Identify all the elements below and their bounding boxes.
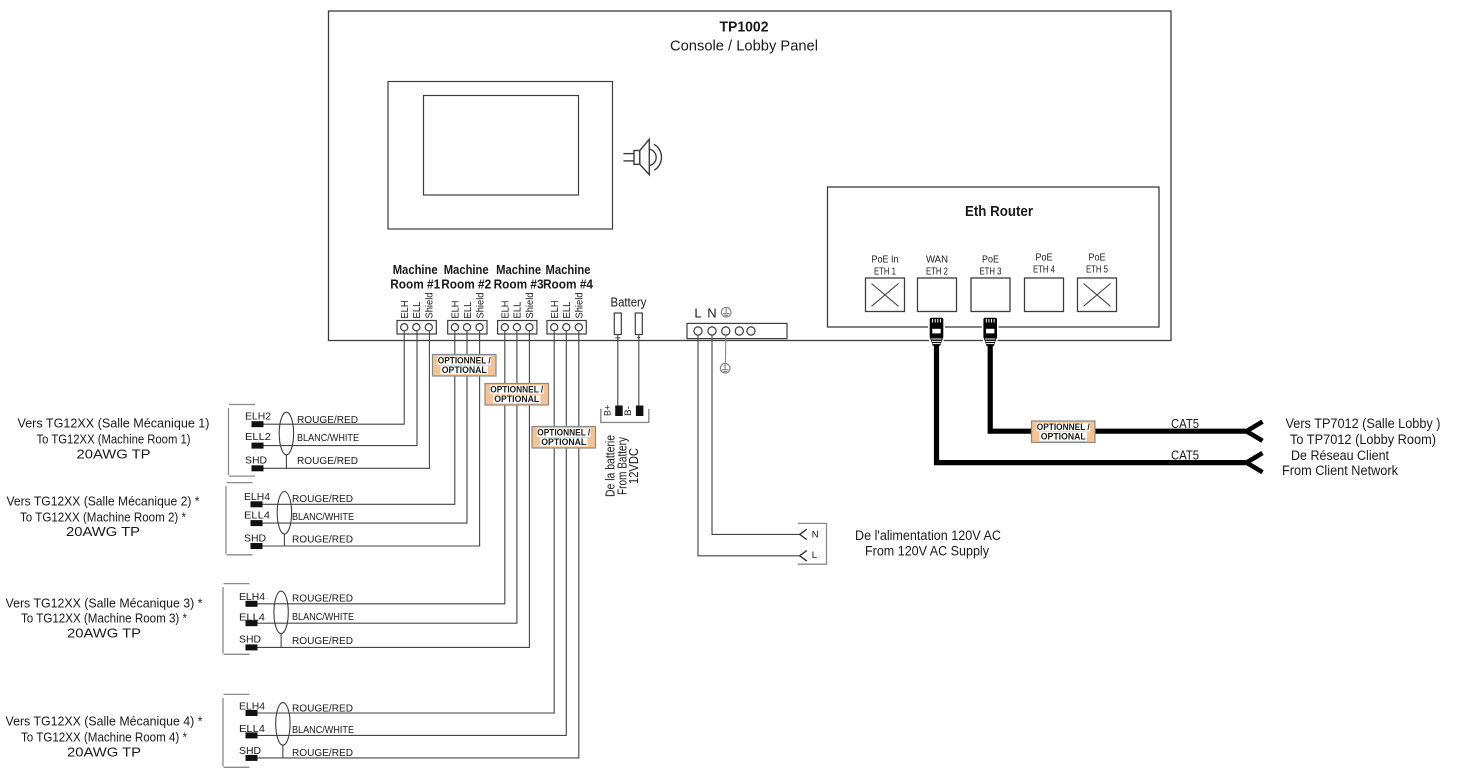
svg-text:OPTIONNEL /: OPTIONNEL / — [490, 385, 543, 395]
svg-text:Room #2: Room #2 — [441, 277, 491, 292]
svg-text:BLANC/WHITE: BLANC/WHITE — [292, 725, 354, 736]
svg-text:ETH 4: ETH 4 — [1033, 265, 1055, 276]
svg-text:OPTIONAL: OPTIONAL — [1041, 432, 1086, 442]
svg-text:ELL: ELL — [412, 301, 423, 318]
svg-text:BLANC/WHITE: BLANC/WHITE — [292, 612, 354, 623]
svg-text:ROUGE/RED: ROUGE/RED — [292, 703, 353, 714]
svg-text:ETH 3: ETH 3 — [980, 267, 1002, 278]
svg-text:ETH 2: ETH 2 — [926, 267, 948, 278]
svg-text:Machine: Machine — [393, 262, 438, 277]
svg-text:ELL: ELL — [562, 301, 573, 318]
svg-text:From 120V AC Supply: From 120V AC Supply — [865, 543, 989, 558]
svg-text:PoE: PoE — [982, 255, 999, 266]
svg-text:BLANC/WHITE: BLANC/WHITE — [292, 512, 354, 523]
svg-text:N: N — [812, 530, 819, 541]
svg-text:De Réseau Client: De Réseau Client — [1291, 448, 1389, 463]
svg-text:Vers TG12XX (Salle Mécanique 1: Vers TG12XX (Salle Mécanique 1) — [18, 415, 210, 430]
svg-text:L: L — [812, 550, 817, 561]
svg-text:ELH: ELH — [400, 301, 411, 319]
svg-text:ELL2: ELL2 — [245, 431, 271, 443]
svg-text:ELL: ELL — [463, 301, 474, 318]
svg-text:PoE In: PoE In — [872, 255, 899, 266]
svg-text:Room #4: Room #4 — [543, 277, 594, 292]
svg-text:Machine: Machine — [444, 262, 489, 277]
svg-text:CAT5: CAT5 — [1171, 416, 1199, 431]
svg-text:ROUGE/RED: ROUGE/RED — [292, 636, 353, 647]
svg-text:ETH 5: ETH 5 — [1086, 265, 1108, 276]
svg-text:Vers TG12XX (Salle Mécanique 4: Vers TG12XX (Salle Mécanique 4) * — [6, 713, 203, 728]
svg-text:OPTIONAL: OPTIONAL — [494, 394, 539, 404]
svg-text:ROUGE/RED: ROUGE/RED — [292, 494, 353, 505]
svg-text:PoE: PoE — [1089, 253, 1106, 264]
svg-text:Eth Router: Eth Router — [965, 203, 1033, 220]
svg-text:SHD: SHD — [245, 455, 267, 467]
svg-text:Console / Lobby Panel: Console / Lobby Panel — [670, 38, 818, 55]
svg-text:Machine: Machine — [546, 262, 591, 277]
svg-text:To TG12XX (Machine Room 1): To TG12XX (Machine Room 1) — [37, 431, 191, 446]
svg-text:Room #3: Room #3 — [494, 277, 544, 292]
svg-text:CAT5: CAT5 — [1171, 448, 1199, 463]
svg-text:Shield: Shield — [475, 293, 486, 319]
svg-text:Vers TG12XX (Salle Mécanique 2: Vers TG12XX (Salle Mécanique 2) * — [7, 493, 200, 508]
svg-text:Machine: Machine — [496, 262, 541, 277]
svg-text:12VDC: 12VDC — [627, 448, 641, 484]
svg-text:ELH4: ELH4 — [244, 491, 270, 503]
svg-text:Battery: Battery — [611, 296, 648, 310]
svg-text:ELH: ELH — [550, 301, 561, 319]
svg-text:OPTIONAL: OPTIONAL — [442, 365, 487, 375]
svg-text:SHD: SHD — [244, 532, 266, 544]
svg-text:Vers TG12XX (Salle Mécanique 3: Vers TG12XX (Salle Mécanique 3) * — [6, 595, 203, 610]
svg-text:ELH2: ELH2 — [245, 411, 271, 423]
svg-text:20AWG TP: 20AWG TP — [66, 524, 140, 539]
svg-text:ROUGE/RED: ROUGE/RED — [297, 456, 358, 467]
svg-text:Shield: Shield — [425, 293, 436, 319]
svg-text:ELH: ELH — [451, 301, 462, 319]
svg-text:B-: B- — [623, 406, 633, 416]
svg-text:20AWG TP: 20AWG TP — [77, 447, 151, 462]
svg-text:N: N — [707, 306, 716, 321]
svg-text:TP1002: TP1002 — [720, 19, 769, 36]
svg-text:20AWG TP: 20AWG TP — [67, 625, 141, 640]
svg-text:ROUGE/RED: ROUGE/RED — [292, 594, 353, 605]
svg-text:To TP7012 (Lobby Room): To TP7012 (Lobby Room) — [1290, 432, 1436, 447]
svg-text:OPTIONNEL /: OPTIONNEL / — [1037, 422, 1090, 432]
svg-text:Shield: Shield — [575, 293, 586, 319]
svg-text:De l'alimentation 120V AC: De l'alimentation 120V AC — [855, 528, 1001, 543]
svg-text:Room #1: Room #1 — [390, 277, 440, 292]
svg-text:ETH 1: ETH 1 — [874, 267, 896, 278]
svg-text:BLANC/WHITE: BLANC/WHITE — [297, 433, 359, 444]
svg-text:ROUGE/RED: ROUGE/RED — [297, 415, 358, 426]
svg-text:To TG12XX (Machine Room 3) *: To TG12XX (Machine Room 3) * — [21, 611, 187, 626]
svg-text:ELL4: ELL4 — [244, 510, 270, 522]
svg-text:ROUGE/RED: ROUGE/RED — [292, 535, 353, 546]
svg-text:OPTIONNEL /: OPTIONNEL / — [537, 428, 590, 438]
svg-text:Vers TP7012 (Salle Lobby ): Vers TP7012 (Salle Lobby ) — [1286, 416, 1441, 431]
svg-text:PoE: PoE — [1036, 253, 1053, 264]
svg-text:SHD: SHD — [239, 633, 261, 645]
svg-text:B+: B+ — [603, 405, 613, 416]
svg-text:Shield: Shield — [525, 293, 536, 319]
svg-text:From Client Network: From Client Network — [1282, 463, 1398, 478]
svg-text:OPTIONNEL /: OPTIONNEL / — [438, 356, 491, 366]
svg-text:ROUGE/RED: ROUGE/RED — [292, 748, 353, 759]
svg-text:To TG12XX (Machine Room 4) *: To TG12XX (Machine Room 4) * — [21, 729, 187, 744]
svg-text:WAN: WAN — [926, 255, 948, 266]
svg-text:ELL: ELL — [513, 301, 524, 318]
svg-text:ELH: ELH — [501, 301, 512, 319]
svg-text:L: L — [694, 306, 701, 321]
svg-text:20AWG TP: 20AWG TP — [67, 744, 141, 759]
svg-text:OPTIONAL: OPTIONAL — [541, 437, 586, 447]
svg-text:To TG12XX (Machine Room 2) *: To TG12XX (Machine Room 2) * — [20, 510, 186, 525]
